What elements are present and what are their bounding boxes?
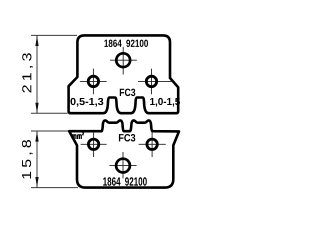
upper die: range 1,0-1,5: [150, 98, 180, 107]
lower die: crosshair big hole: [109, 165, 136, 167]
lower die: FC3 text: [119, 134, 135, 142]
upper die outline: [69, 35, 179, 113]
lower die: crosshair right hole: [139, 143, 166, 145]
upper die: big hole: [116, 53, 130, 67]
dimension line 21,3: [36, 35, 38, 113]
upper die: FC3 text: [120, 89, 135, 97]
upper die: crosshair right hole: [138, 80, 172, 82]
extension line top of upper die: [31, 34, 77, 36]
extension line bottom of upper die: [31, 112, 68, 114]
lower die: part number text: [103, 177, 147, 185]
upper die: crosshair left hole: [80, 80, 107, 82]
upper die: right hole: [146, 76, 156, 86]
lower die: left hole: [88, 139, 98, 149]
upper die: range 0,5-1,3: [70, 98, 103, 107]
upper die: left hole: [88, 76, 98, 86]
extension line top of lower die: [31, 130, 68, 132]
lower die: right hole: [147, 139, 157, 149]
upper die: part number text: [104, 40, 148, 47]
lower die outline: [69, 120, 179, 187]
dimension text 15,8: [22, 140, 33, 179]
lower die: crosshair left hole: [81, 143, 107, 145]
upper die: crosshair big hole: [110, 59, 137, 61]
dimension text 21,3: [22, 53, 33, 92]
lower die: mm2 text: [72, 132, 84, 139]
dimension line 15,8: [36, 131, 38, 188]
extension line bottom of lower die: [31, 187, 78, 189]
lower die: big hole: [116, 159, 130, 173]
